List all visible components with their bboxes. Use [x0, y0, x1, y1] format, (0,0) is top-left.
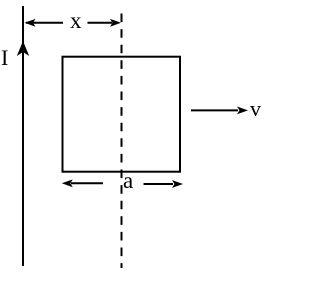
svg-text:v: v	[250, 96, 261, 121]
svg-text:I: I	[1, 45, 8, 70]
svg-text:x: x	[70, 8, 82, 33]
svg-text:a: a	[123, 168, 133, 193]
